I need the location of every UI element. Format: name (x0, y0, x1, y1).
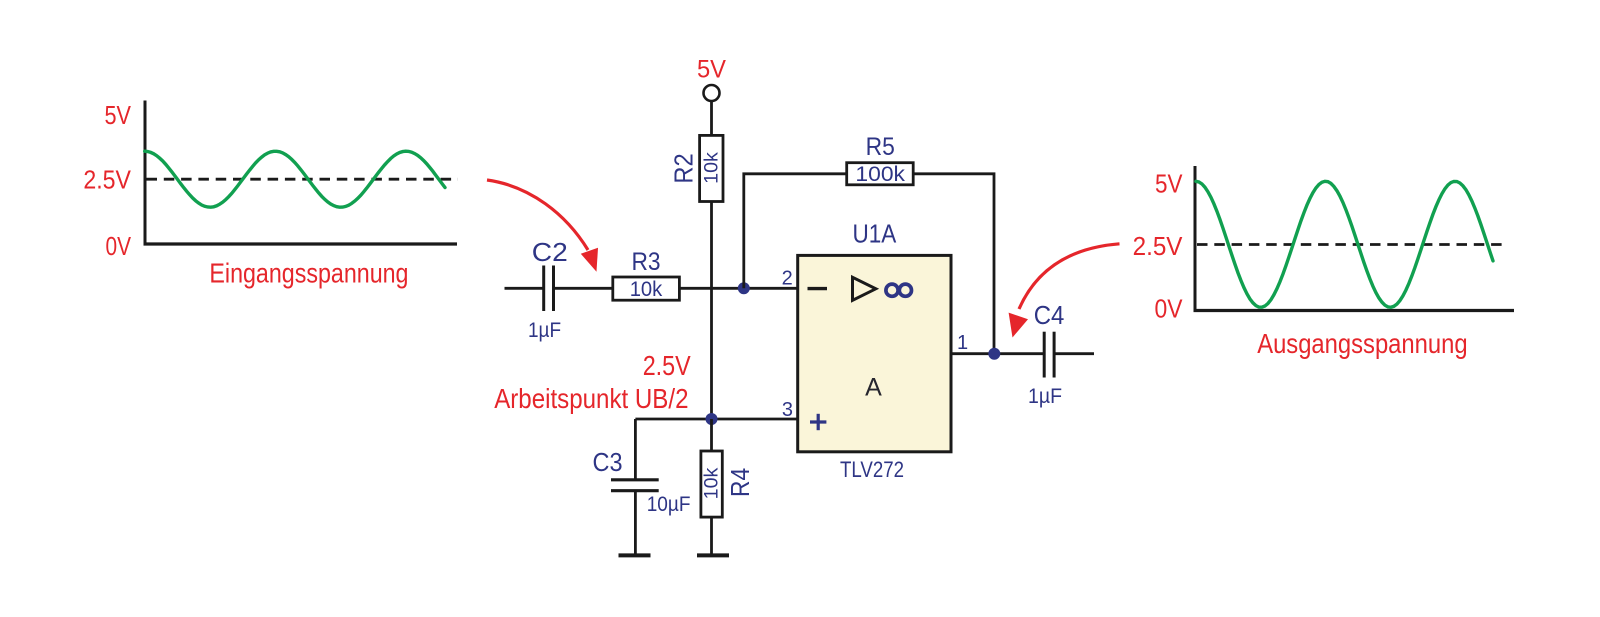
svg-text:5V: 5V (697, 56, 726, 84)
output sine wave (1196, 181, 1493, 307)
svg-text:C4: C4 (1034, 300, 1065, 330)
svg-text:U1A: U1A (853, 218, 897, 248)
svg-text:5V: 5V (105, 100, 132, 130)
wire node to pin 3 (635, 418, 798, 421)
wire C2 to R3 (555, 287, 614, 290)
wire C3 to ground (634, 492, 637, 555)
capacitor C3 plates (611, 478, 659, 481)
ground C3 (619, 553, 651, 557)
svg-text:1µF: 1µF (1028, 385, 1062, 408)
output wire right of C4 (1056, 352, 1095, 355)
svg-text:R5: R5 (866, 133, 895, 161)
infinity symbol (886, 284, 912, 296)
axis Y right graph (1194, 166, 1197, 312)
ground R4 (697, 553, 729, 557)
svg-text:2.5V: 2.5V (1133, 231, 1184, 261)
svg-text:R3: R3 (631, 248, 660, 276)
feedback wire up and over R5 (744, 174, 847, 288)
svg-text:10k: 10k (702, 152, 723, 184)
axis Y left graph (144, 101, 147, 246)
node minus-input junction (738, 282, 750, 294)
resistor R2 body (700, 135, 723, 201)
svg-text:1µF: 1µF (528, 319, 561, 342)
wire op-amp output to C4 (951, 352, 1043, 355)
svg-text:2.5V: 2.5V (643, 350, 691, 381)
svg-text:0V: 0V (1155, 294, 1184, 324)
wire R3 to op-amp pin 2 (679, 287, 798, 290)
5V terminal circle (704, 85, 720, 101)
svg-text:Ausgangsspannung: Ausgangsspannung (1257, 328, 1467, 359)
svg-text:A: A (865, 374, 882, 402)
svg-text:C3: C3 (593, 447, 623, 477)
red arrow from input graph to C2/R3 (487, 180, 588, 250)
dashed 2.5V level left (147, 178, 459, 181)
svg-text:100k: 100k (855, 163, 905, 186)
op-amp U1A body (798, 255, 951, 451)
wire down to C3 (634, 419, 637, 479)
svg-text:Arbeitspunkt UB/2: Arbeitspunkt UB/2 (494, 383, 688, 414)
svg-text:R4: R4 (725, 468, 755, 497)
capacitor C4 plates (1043, 332, 1046, 378)
svg-text:5V: 5V (1155, 169, 1183, 199)
svg-text:C2: C2 (532, 237, 568, 267)
svg-text:0V: 0V (106, 231, 132, 261)
red arrow from output node to 2.5V of right graph (1019, 244, 1120, 309)
axis X right graph (1194, 309, 1515, 312)
resistor R5 body (847, 163, 914, 185)
svg-text:2: 2 (782, 268, 793, 290)
wire R4 to ground (710, 517, 713, 554)
svg-text:Eingangsspannung: Eingangsspannung (209, 257, 408, 288)
svg-text:TLV272: TLV272 (840, 457, 904, 482)
svg-text:10k: 10k (702, 467, 723, 499)
svg-text:10µF: 10µF (647, 493, 691, 516)
node output junction (988, 348, 1000, 360)
resistor R4 body (701, 451, 722, 517)
svg-text:10k: 10k (630, 278, 663, 301)
axis X left graph (144, 242, 458, 245)
svg-text:R2: R2 (669, 153, 699, 183)
wire node down to R4 (710, 419, 713, 452)
plus symbol (810, 414, 826, 430)
dashed 2.5V level right (1197, 243, 1507, 246)
node plus-input junction (706, 413, 718, 425)
svg-text:2.5V: 2.5V (83, 165, 131, 195)
svg-text:1: 1 (957, 332, 968, 354)
wire 5V to R2 (710, 101, 713, 136)
minus symbol (808, 287, 828, 290)
input sine wave (145, 151, 445, 207)
op-amp triangle (853, 277, 876, 300)
resistor R3 body (613, 277, 680, 300)
input wire (505, 287, 544, 290)
wire R2 down through crossing to node (710, 202, 713, 420)
wire R5 to output node (913, 174, 994, 354)
capacitor C2 plates (542, 266, 545, 312)
